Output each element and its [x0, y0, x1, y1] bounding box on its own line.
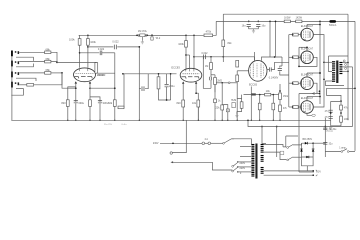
junction tone top left	[122, 73, 124, 75]
wire node A to grid leak	[57, 61, 96, 63]
junction node B	[61, 72, 63, 74]
wire R19 gnd	[221, 110, 223, 120]
junction sec b	[347, 70, 349, 72]
wire V4 plate	[313, 35, 324, 63]
jack J2 input	[11, 61, 13, 67]
wire node B down	[62, 73, 76, 88]
wire right vert C	[352, 67, 354, 127]
wire J3 tip	[19, 72, 44, 74]
resistor R1 68k	[45, 51, 51, 54]
svg-text:68k: 68k	[46, 57, 51, 61]
svg-text:0.1/400V: 0.1/400V	[269, 77, 279, 80]
junction railB j3	[319, 21, 321, 23]
wire grid V6	[298, 82, 301, 84]
wire V1 k2 down	[89, 83, 91, 121]
wire R13 bottom net	[159, 89, 171, 100]
junction pi grid node	[210, 56, 212, 58]
jack J1 input	[11, 51, 13, 57]
junction heater b	[312, 174, 314, 176]
wire caps converge	[249, 27, 259, 30]
wire HT sec top	[264, 145, 287, 147]
svg-text:2 A: 2 A	[205, 138, 209, 141]
diode D5	[312, 149, 315, 152]
resistor R7 820 cathode	[66, 100, 69, 107]
wire R5 top	[79, 35, 81, 38]
junction bias chain	[279, 90, 281, 92]
wire heater a	[264, 170, 314, 172]
svg-text:10k: 10k	[192, 102, 197, 105]
wire R19b up	[214, 75, 216, 78]
wire tone loop	[118, 74, 124, 108]
resistor R8 820 cathode	[89, 100, 92, 107]
svg-text:68k: 68k	[46, 68, 51, 72]
resistor R28 screen feed	[296, 20, 302, 23]
wire R18 up	[210, 57, 212, 63]
wire V1b plate out	[88, 46, 113, 48]
junction v5 plate bus	[298, 66, 300, 68]
junction C7 bottom	[166, 99, 168, 101]
junction bias feed	[276, 126, 278, 128]
wire V1 k1 down	[75, 83, 77, 121]
wire fb box	[331, 101, 341, 126]
wire V3 plate a up	[254, 57, 256, 61]
wire R18 down	[211, 74, 215, 76]
svg-text:820: 820	[61, 101, 66, 105]
switch S2 selector a	[232, 165, 234, 167]
svg-text:500mA: 500mA	[329, 24, 337, 27]
junction fb rail	[354, 87, 356, 89]
wire row cont	[271, 94, 279, 96]
svg-text:47k: 47k	[283, 108, 288, 110]
ground fb	[329, 126, 332, 129]
wire R14 top	[185, 35, 187, 40]
resistor R14 100k V2 plate	[185, 41, 188, 48]
wire C5 to vol	[117, 46, 139, 48]
capacitor C3 330u	[98, 100, 102, 102]
junction bus x222.2	[222, 120, 223, 121]
resistor R17 470k pi	[204, 34, 213, 37]
trim VR2 hum	[232, 103, 235, 108]
svg-text:82k: 82k	[108, 101, 113, 105]
junction sec a	[347, 62, 349, 64]
resistor grid stopper V7	[293, 106, 299, 109]
wire grid stub V7	[289, 106, 293, 108]
wire pi coupling	[194, 56, 255, 58]
svg-text:250u: 250u	[169, 85, 175, 88]
wire V2b plate	[193, 35, 195, 69]
resistor R19 22k	[221, 105, 224, 110]
junction bridge +	[312, 142, 314, 144]
resistor R29 fb	[340, 105, 343, 110]
svg-text:220V: 220V	[240, 167, 246, 170]
wire heater tick	[316, 170, 318, 176]
junction rail at V2b	[193, 34, 195, 36]
wire tone top	[123, 73, 177, 75]
svg-text:32u: 32u	[329, 144, 334, 146]
pin V2 cathode2 jog	[196, 83, 198, 100]
capacitor C14 47n	[329, 116, 333, 118]
wire rail A	[223, 13, 348, 15]
svg-text:1M: 1M	[205, 65, 208, 68]
capacitor C15 supp	[280, 151, 284, 154]
capacitor C11 16u	[247, 24, 251, 26]
wire R19b tail	[214, 85, 216, 121]
ground hum pot	[235, 115, 238, 118]
wire R5 to V1 plate	[79, 45, 81, 68]
resistor R30 fb	[340, 116, 343, 122]
svg-text:150k: 150k	[283, 96, 289, 98]
wire PT top jog	[262, 127, 266, 144]
junction bus x114.8	[114, 120, 115, 121]
wire jack ground chain	[11, 56, 13, 120]
wire pt tap top	[240, 146, 251, 148]
junction plate b wire	[274, 56, 276, 58]
resistor R18 1M	[210, 63, 213, 70]
svg-text:1K5W: 1K5W	[284, 18, 291, 20]
transformer T2 secondary bias	[261, 155, 264, 157]
wire preamp B+ rail	[79, 34, 204, 36]
wire rail B	[216, 20, 355, 22]
wire ground bus	[11, 119, 330, 121]
resistor R31 1k	[214, 99, 217, 103]
wire V7 plate	[313, 79, 324, 107]
wire S1 out	[232, 138, 235, 140]
resistor R10 500k	[95, 63, 98, 74]
svg-text:500k: 500k	[98, 74, 104, 77]
wire fb tick	[313, 93, 315, 95]
junction V2 k2 jog	[195, 92, 197, 94]
wire bridge out top	[313, 142, 325, 144]
resistor R21 hum bal	[240, 102, 243, 109]
svg-text:47n: 47n	[325, 111, 330, 113]
transformer T2 secondary heater	[261, 167, 264, 169]
wire R26 v	[272, 95, 274, 104]
transformer T2 secondary HT	[261, 144, 264, 146]
wire J1 sleeve return	[16, 57, 33, 61]
resistor R25 820	[258, 103, 261, 110]
wire V5 plate	[299, 47, 317, 66]
junction bus x183.2	[183, 120, 184, 121]
junction TA2	[151, 34, 153, 36]
capacitor C8b	[210, 77, 212, 81]
tube V3 ECC83 phase inverter	[249, 60, 267, 81]
resistor R2 68k	[45, 60, 51, 63]
wire k1 branch	[68, 87, 76, 120]
wire sw to bridge a	[293, 143, 302, 145]
wire cathode drop	[298, 94, 300, 173]
junction bus x227.8	[227, 120, 228, 121]
wire pi left vert	[236, 71, 238, 121]
junction bus x259.7	[259, 120, 260, 121]
arrow V1 cathode1	[75, 81, 77, 83]
wire screen h V6	[307, 72, 320, 74]
wire pi cathode row	[244, 94, 265, 96]
junction fb mid R	[340, 112, 342, 114]
wire heater b	[264, 174, 314, 176]
wire R6 top	[87, 35, 89, 38]
junction bus x100	[99, 120, 100, 121]
svg-text:16u: 16u	[261, 24, 266, 27]
terminal standby b	[347, 151, 349, 153]
wire V2 k2 down	[197, 100, 199, 120]
tube V7 EL34	[301, 101, 314, 114]
wire pilot jog	[222, 105, 228, 109]
svg-text:0.022: 0.022	[202, 52, 209, 55]
junction bus tail	[247, 119, 249, 121]
jack J4 input	[11, 82, 13, 88]
svg-text:BR 250V: BR 250V	[303, 138, 313, 141]
wire V2 k1 down	[182, 83, 184, 120]
wire grid V5	[298, 56, 301, 58]
wire sec tap2	[342, 66, 352, 68]
wire screen stub V4	[306, 25, 308, 29]
junction fb a	[319, 93, 321, 95]
junction filt a	[324, 126, 326, 128]
resistor R27 screen feed	[284, 20, 290, 23]
junction mains left	[172, 142, 174, 144]
switch S1 mains	[223, 142, 225, 144]
wire J4 tip	[19, 84, 27, 86]
wire screen h V5	[299, 46, 307, 48]
junction sel tap c	[237, 171, 238, 172]
svg-text:32+32u: 32+32u	[329, 129, 337, 131]
capacitor C6	[142, 86, 144, 91]
junction bus x90	[89, 120, 90, 121]
svg-text:470k: 470k	[206, 30, 212, 33]
resistor R6 100k V1b plate	[87, 39, 90, 46]
wire R25 v2	[259, 110, 261, 121]
wire J3 sleeve return	[16, 78, 36, 81]
wire rail A left vert	[222, 14, 224, 62]
resistor R4 68k	[27, 84, 34, 87]
wire R2 to node A	[51, 61, 57, 64]
junction V1b plate node	[87, 46, 89, 48]
resistor R5 100k V1a plate	[78, 39, 81, 46]
wire fb link	[317, 93, 320, 95]
switch S2 selector b	[232, 170, 234, 172]
junction V1a plate node	[79, 52, 81, 54]
svg-text:ECC83: ECC83	[249, 84, 258, 87]
svg-text:1M VOL: 1M VOL	[138, 30, 148, 33]
junction vol right	[147, 34, 149, 36]
svg-text:230V: 230V	[153, 142, 159, 145]
wire HT sec bot	[264, 152, 287, 159]
wire filt link	[325, 126, 352, 128]
wire R19b down	[214, 85, 216, 93]
wire k2 branch	[90, 97, 100, 120]
wire mixer drop	[114, 53, 116, 121]
svg-text:820: 820	[177, 102, 182, 105]
wire C6 branch	[139, 74, 148, 89]
jack J3 input	[11, 72, 13, 78]
svg-text:22k: 22k	[215, 106, 220, 109]
wire grid V7	[298, 106, 301, 108]
wire V7 cathode	[307, 113, 312, 115]
junction tone vert top	[138, 46, 140, 48]
resistor grid stopper V4	[293, 33, 299, 36]
capacitor C4 0.022	[100, 51, 102, 56]
switch S4 standby	[341, 151, 343, 153]
junction bus x67.8	[67, 120, 68, 121]
terminal bias test	[228, 82, 230, 84]
fuse F2 HT	[329, 20, 336, 23]
junction bias row	[221, 82, 223, 84]
tube V5 EL34	[301, 51, 314, 64]
wire R10 bottom link	[96, 72, 115, 74]
wire screen bus vert	[319, 21, 321, 104]
diode D3	[306, 156, 309, 159]
junction V1 k1 row	[75, 87, 77, 89]
capacitor C17 filter	[323, 143, 327, 145]
wire screen h V7	[307, 96, 320, 98]
transformer T1 secondary	[339, 62, 342, 64]
junction screen V6b	[319, 72, 321, 74]
wire bridge out bot	[302, 157, 314, 171]
svg-text:1k: 1k	[218, 101, 221, 103]
wire R6 to V1 plate	[87, 45, 89, 68]
junction plate V4	[323, 61, 325, 63]
junction railB capA	[248, 21, 250, 23]
svg-text:0: 0	[240, 172, 242, 175]
svg-text:330u: 330u	[78, 101, 84, 105]
junction screen V4 rail	[319, 24, 321, 26]
wire fb rail link	[327, 87, 356, 89]
wire OT primary bottom	[326, 81, 345, 86]
tube V1 ECC83	[74, 68, 96, 82]
arrow V2 cathode2	[195, 82, 197, 84]
wire railB drop b	[275, 21, 277, 57]
wire railB drop a	[269, 21, 271, 57]
junction V2b plate out	[193, 56, 195, 58]
junction grid V4	[292, 34, 294, 36]
junction bus x198.3	[198, 120, 199, 121]
wire V2 k2 low	[197, 107, 199, 120]
wire grid bus	[288, 35, 290, 107]
svg-text:8+8u: 8+8u	[122, 124, 128, 126]
wire fuse link	[205, 142, 208, 144]
junction V2a plate node	[185, 54, 187, 56]
wire V3 plate b	[262, 57, 283, 61]
resistor R26 470	[272, 103, 275, 110]
junction V1 k2 row	[89, 87, 91, 89]
terminal OT sec taps	[343, 60, 345, 62]
diode D4	[300, 149, 303, 152]
wire V2 mid pin	[189, 55, 191, 70]
junction rail at R6	[87, 34, 89, 36]
wire heater drop	[299, 171, 314, 173]
wire screen stub V6	[306, 73, 308, 77]
junction screen V5	[306, 46, 308, 48]
wire J3/J4 node to V1 grid2	[51, 72, 62, 74]
resistor R16 10k tail	[197, 100, 200, 107]
wire R26 v2	[272, 110, 274, 121]
wire VR1 wiper	[141, 37, 143, 41]
svg-text:25u 25V: 25u 25V	[104, 124, 113, 126]
wire sel taps c	[238, 171, 252, 173]
junction screen V6	[319, 72, 321, 74]
svg-text:100k: 100k	[344, 119, 350, 121]
arrow mains earth	[171, 161, 174, 163]
capacitor C9 0.1	[269, 67, 271, 71]
wire plate bus left	[323, 62, 325, 79]
junction grid V5	[292, 56, 294, 58]
wire standby run	[325, 151, 355, 153]
wire R14 to V2	[185, 47, 187, 69]
wire R25 v	[259, 95, 261, 104]
wire hum net	[237, 99, 242, 115]
wire V2a to mid	[186, 54, 190, 56]
capacitor C10 0.1	[278, 69, 282, 71]
wire bus tail	[248, 120, 325, 126]
wire V3 top outs	[254, 52, 256, 61]
wire grid stub V6	[289, 82, 293, 84]
junction fb box	[340, 100, 342, 102]
wire pilot gnd	[227, 112, 229, 121]
wire V6 plate	[299, 83, 317, 93]
wire C7 bot	[166, 87, 168, 100]
wire R1 to node A	[51, 52, 57, 62]
wire sw to bridge b	[293, 156, 302, 158]
wire fuse to S1	[211, 142, 223, 144]
capacitor C7 250u	[165, 84, 169, 86]
svg-text:240V: 240V	[240, 162, 246, 165]
wire pi bias row	[216, 82, 228, 84]
junction row a	[259, 94, 261, 96]
resistor R15 820	[182, 100, 185, 107]
wire bias row cont	[230, 82, 237, 84]
resistor R9 82k	[113, 100, 116, 107]
diode D2	[305, 142, 308, 145]
wire pi k down1	[250, 87, 252, 95]
wire R18 to C8b	[210, 70, 212, 89]
tube V6 EL34	[301, 77, 314, 90]
wire OT primary top	[324, 61, 332, 63]
wire sel taps a	[238, 161, 252, 163]
wire pt tap mid	[240, 156, 251, 158]
svg-text:100k: 100k	[69, 38, 75, 42]
transformer T2 primary	[251, 144, 254, 146]
wire sel taps b	[238, 166, 252, 168]
junction mixer	[114, 87, 116, 89]
resistor grid stopper V5	[293, 56, 299, 59]
junction bus x75.8	[75, 120, 76, 121]
ground C11 C12	[252, 30, 255, 33]
wire V3 left pins	[237, 70, 248, 72]
svg-text:1K5W: 1K5W	[296, 18, 303, 20]
ground VR1	[141, 41, 144, 44]
resistor R13 56k	[157, 77, 160, 89]
junction sel tap a	[237, 161, 238, 162]
wire S1 to PT	[232, 139, 252, 145]
capacitor C13 47n	[329, 110, 333, 112]
junction bus x273.3	[273, 120, 274, 121]
svg-text:82k: 82k	[228, 42, 233, 45]
bridge BR1 outline	[302, 143, 314, 157]
wire C10 path	[280, 57, 289, 75]
junction fb mid L	[330, 112, 332, 114]
junction row b	[272, 94, 274, 96]
capacitor C12 16u	[256, 24, 260, 26]
wire tone vertical	[138, 47, 140, 120]
diode D1	[251, 94, 256, 96]
wire J2 sleeve return	[16, 64, 33, 67]
wire bridge ac top	[286, 136, 298, 147]
junction screen V7	[319, 96, 321, 98]
wire right vert A	[347, 14, 349, 120]
capacitor C5 0.022	[114, 45, 116, 50]
wire R21 feed	[241, 95, 243, 99]
potentiometer VR1 volume	[138, 34, 140, 36]
